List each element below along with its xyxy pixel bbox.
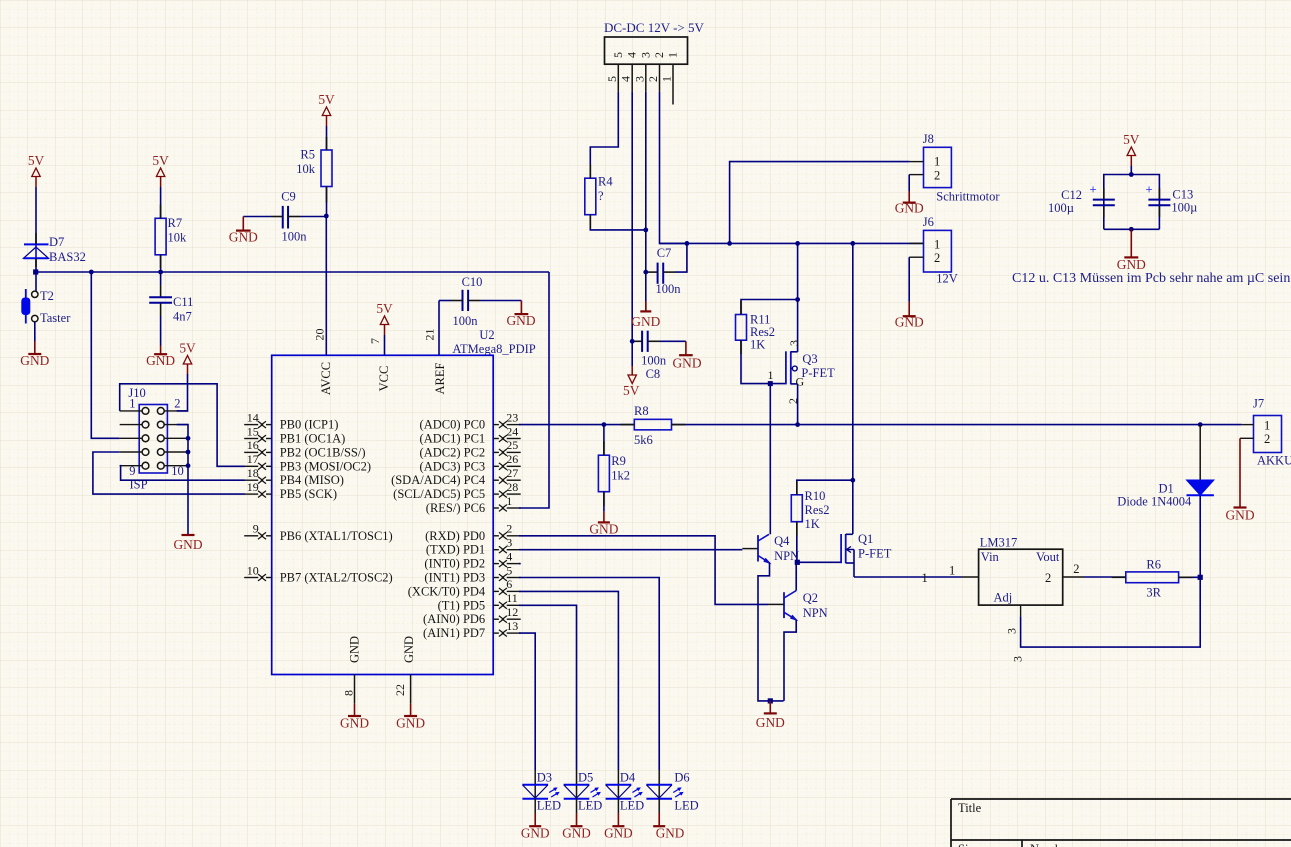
svg-text:C12 u. C13 Müssen im Pcb sehr: C12 u. C13 Müssen im Pcb sehr nahe am µC… (1012, 271, 1290, 286)
pin 15 PB1 (OC1A) (244, 424, 345, 445)
node junction R11/Q3 drain (795, 297, 800, 302)
svg-text:C11: C11 (173, 295, 193, 309)
svg-text:(ADC2) PC2: (ADC2) PC2 (420, 445, 486, 459)
node junction emitter GND (768, 698, 773, 703)
ground GND right of C10 (506, 301, 535, 329)
wire J10 pin1 to PB3 (120, 384, 245, 467)
wire R11 top to Q3 drain (741, 300, 798, 315)
wire PC6 reset net (519, 272, 549, 508)
wire R4 bottom to pin3 node (590, 215, 646, 230)
wire PD5 to LED D5 (519, 605, 577, 770)
svg-text:10k: 10k (296, 162, 316, 176)
node junction D7/T2 (33, 269, 38, 274)
node junction R4/pin3 (643, 228, 648, 233)
wire C12/C13 bottom rail (1104, 228, 1160, 230)
wire J10 reset branch (91, 272, 119, 438)
svg-text:Res2: Res2 (805, 503, 830, 517)
svg-text:Vout: Vout (1036, 550, 1060, 564)
wire Adj pin (1005, 606, 1021, 634)
pin 10 PB7 (XTAL2/TOSC2) (244, 563, 393, 584)
svg-text:11: 11 (506, 591, 518, 605)
pin 11 (T1) PD5 (438, 591, 521, 612)
power 5V symbol (R7) (152, 153, 169, 187)
svg-text:(ADC3) PC3: (ADC3) PC3 (420, 459, 486, 473)
power 5V symbol (D7 branch) (28, 153, 45, 187)
svg-text:GND: GND (562, 826, 591, 841)
resistor R4 ? (585, 175, 614, 215)
svg-text:GND: GND (604, 826, 633, 841)
svg-text:2: 2 (506, 522, 512, 536)
svg-text:AREF: AREF (433, 362, 447, 394)
push button T2 Taster (21, 272, 71, 325)
svg-text:9: 9 (253, 522, 259, 536)
svg-text:R10: R10 (805, 489, 826, 503)
wire J10 pin7 to PB5 (93, 452, 245, 494)
pin 17 PB3 (MOSI/OC2) (244, 452, 371, 473)
pin 5 (INT1) PD3 (424, 563, 520, 584)
svg-text:(ADC1) PC1: (ADC1) PC1 (420, 432, 486, 446)
ground GND under C11 (146, 346, 175, 369)
node junction C8/pin4 (630, 339, 635, 344)
LED D3 (521, 770, 561, 841)
svg-text:(SCL/ADC5) PC5: (SCL/ADC5) PC5 (393, 487, 485, 501)
wire Q2 collector to gate node (795, 562, 797, 590)
node junction R5/C9 (324, 214, 329, 219)
LED D4 (604, 770, 644, 841)
wire pin4 to 5V down arrow (631, 341, 633, 366)
svg-text:GND: GND (402, 636, 416, 663)
svg-text:GND: GND (396, 716, 425, 731)
svg-text:GND: GND (672, 356, 701, 371)
svg-text:8: 8 (342, 690, 356, 696)
wire J8 pin2 to GND (908, 175, 910, 191)
wire 5V to VCC pin 7 (384, 335, 386, 355)
wire R10 bottom to gate node (796, 522, 798, 563)
svg-text:Q3: Q3 (802, 352, 817, 366)
wire R8 to AKKU net (672, 424, 1242, 426)
pin 4 (INT0) PD2 (424, 549, 520, 570)
power 5V symbol (J10 pin2) (179, 341, 196, 375)
node junction reset/R7-C11 (158, 270, 163, 275)
resistor R10 Res2 1K (791, 489, 829, 531)
resistor R9 1k2 (598, 454, 630, 492)
svg-text:(INT0) PD2: (INT0) PD2 (424, 557, 485, 571)
svg-text:C10: C10 (462, 275, 483, 289)
pin 2 (RXD) PD0 (425, 522, 521, 543)
svg-text:(ADC0) PC0: (ADC0) PC0 (420, 418, 486, 432)
svg-text:GND: GND (1225, 508, 1254, 523)
pin 24 (ADC1) PC1 (420, 424, 521, 445)
transistor Q1 P-FET (841, 532, 892, 577)
svg-text:(SDA/ADC4) PC4: (SDA/ADC4) PC4 (391, 473, 486, 487)
wire J10 pin9 to PB4 (120, 466, 245, 481)
svg-text:16: 16 (247, 438, 259, 452)
pin number 20 (AVCC) (313, 329, 327, 341)
svg-text:5V: 5V (152, 153, 169, 168)
svg-text:4n7: 4n7 (173, 310, 192, 324)
wire DC-DC pin2 to 12V rail (660, 92, 687, 244)
wire J10 GND column (177, 425, 188, 535)
svg-text:LED: LED (674, 799, 698, 813)
svg-text:22: 22 (393, 684, 407, 696)
pin number 21 (AREF) (423, 329, 437, 341)
svg-text:GND: GND (895, 201, 924, 216)
wire Q1 source to LM317 (854, 576, 962, 578)
svg-text:5k6: 5k6 (634, 433, 653, 447)
wire DC-DC pin5 to R4 (590, 92, 618, 179)
svg-text:J6: J6 (923, 215, 934, 229)
svg-text:19: 19 (247, 480, 259, 494)
title block frame (951, 799, 1291, 847)
wire 5V to J10 pin 2 (177, 374, 188, 411)
svg-text:12V: 12V (936, 272, 958, 286)
svg-text:(RES/) PC6: (RES/) PC6 (426, 501, 485, 515)
svg-text:C12: C12 (1061, 188, 1082, 202)
wire DC-DC pin4 down (631, 92, 633, 342)
svg-text:(T1) PD5: (T1) PD5 (438, 598, 486, 612)
svg-text:2: 2 (934, 251, 940, 265)
svg-text:100n: 100n (282, 229, 308, 243)
svg-text:2: 2 (786, 398, 800, 404)
wire R9 to GND (603, 492, 605, 512)
svg-text:2: 2 (652, 52, 666, 58)
svg-text:GND: GND (895, 315, 924, 330)
svg-text:GND: GND (506, 313, 535, 328)
capacitor C11 4n7 (149, 272, 193, 346)
svg-text:6: 6 (506, 577, 512, 591)
pin 13 (AIN1) PD7 (423, 619, 521, 640)
node junction bottom rail (1129, 227, 1134, 232)
node junction R6/D1 line (1198, 575, 1203, 580)
wire J6 pin2 to GND (908, 257, 910, 302)
svg-text:1: 1 (922, 571, 928, 585)
svg-text:R4: R4 (598, 175, 613, 189)
svg-text:Schrittmotor: Schrittmotor (936, 190, 1000, 204)
pin label VCC (rotated) (377, 366, 391, 392)
svg-text:100µ: 100µ (1048, 201, 1074, 215)
pin number 7 (VCC) (368, 338, 382, 344)
wire Q1 drain from rail (852, 243, 854, 534)
svg-text:1: 1 (1264, 419, 1270, 433)
wire Vout to R6 (1084, 576, 1126, 578)
svg-text:J7: J7 (1253, 397, 1264, 411)
resistor R11 Res2 1K (736, 313, 776, 352)
svg-text:13: 13 (506, 619, 518, 633)
svg-text:Diode 1N4004: Diode 1N4004 (1117, 495, 1192, 509)
pin 8 GND lead (342, 675, 356, 704)
power 5V symbol (down arrow under C8) (623, 366, 640, 398)
svg-text:PB2 (OC1B/SS/): PB2 (OC1B/SS/) (280, 445, 366, 459)
power 5V symbol (C12/C13) (1123, 132, 1140, 166)
node junction D1 cathode (1198, 422, 1203, 427)
svg-text:LM317: LM317 (980, 535, 1018, 549)
svg-text:(AIN0) PD6: (AIN0) PD6 (423, 612, 485, 626)
svg-text:3: 3 (506, 536, 512, 550)
svg-text:14: 14 (247, 410, 259, 424)
ground GND under T2 (20, 341, 49, 368)
wire R11 bottom to Q3 gate (741, 340, 786, 383)
pin 23 (ADC0) PC0 (420, 410, 521, 431)
svg-text:17: 17 (247, 452, 259, 466)
wire R7 to node (160, 255, 162, 272)
svg-text:GND: GND (348, 636, 362, 663)
wire J7 pin2 to GND (1239, 438, 1241, 495)
svg-text:Number: Number (1030, 842, 1072, 847)
wire diode D7 stubs (35, 233, 37, 267)
wire PD4 to LED D4 (519, 591, 618, 770)
svg-text:5V: 5V (1123, 132, 1140, 147)
svg-text:PB4 (MISO): PB4 (MISO) (280, 473, 344, 487)
ground GND under pin 22 (396, 704, 425, 731)
svg-text:5: 5 (605, 76, 619, 82)
wire PD1 to Q4 base (519, 549, 742, 551)
capacitor C10 100n (439, 275, 521, 328)
svg-text:Title: Title (958, 801, 982, 815)
IC designator U2 ATMega8_PDIP (452, 328, 535, 356)
node junction J10 pin6 (186, 436, 191, 441)
pin 16 PB2 (OC1B/SS/) (244, 438, 365, 459)
pin 18 PB4 (MISO) (244, 466, 344, 487)
capacitor C7 100n (646, 243, 687, 296)
node junction J10 pin8 (186, 450, 191, 455)
svg-text:VCC: VCC (377, 366, 391, 392)
wire 5V to C12/C13 top rail (1130, 166, 1132, 175)
svg-text:28: 28 (506, 480, 518, 494)
ground GND under R9 (589, 512, 618, 537)
ground GND under J8 (895, 191, 924, 216)
svg-text:C7: C7 (657, 246, 672, 260)
svg-text:?: ? (598, 189, 604, 203)
svg-text:1: 1 (129, 397, 135, 411)
svg-text:10: 10 (247, 563, 259, 577)
svg-text:GND: GND (656, 826, 685, 841)
svg-text:D6: D6 (674, 771, 689, 785)
svg-text:PB7 (XTAL2/TOSC2): PB7 (XTAL2/TOSC2) (280, 571, 393, 585)
svg-text:5V: 5V (28, 153, 45, 168)
svg-text:R9: R9 (611, 454, 626, 468)
svg-text:ATMega8_PDIP: ATMega8_PDIP (452, 342, 535, 356)
svg-text:+: + (1145, 182, 1152, 197)
svg-text:PB0 (ICP1): PB0 (ICP1) (280, 418, 339, 432)
pin 22 GND lead (393, 675, 411, 704)
svg-text:100n: 100n (656, 282, 682, 296)
wire PD3 to LED D6 (519, 578, 659, 771)
svg-text:GND: GND (20, 353, 49, 368)
wire C12/C13 top rail (1104, 175, 1160, 230)
connector J10 ISP header (120, 386, 189, 492)
op-amp U2 ATMega8 IC body (272, 355, 494, 674)
pin 19 PB5 (SCK) (244, 480, 337, 501)
svg-text:1K: 1K (750, 338, 765, 352)
wire J8 pin1 to rail riser (730, 162, 910, 244)
wire R10 top tap (797, 480, 853, 495)
svg-text:GND: GND (631, 314, 660, 329)
connector J8 Schrittmotor (909, 132, 1000, 204)
svg-text:GND: GND (1117, 257, 1146, 272)
svg-text:LED: LED (620, 799, 644, 813)
svg-text:3: 3 (632, 76, 646, 82)
svg-text:2: 2 (1264, 432, 1270, 446)
ground GND under Q2/Q4 (756, 701, 785, 730)
node junction rail/J8 riser (727, 241, 732, 246)
svg-text:(RXD) PD0: (RXD) PD0 (425, 529, 485, 543)
svg-text:GND: GND (589, 522, 618, 537)
svg-text:1: 1 (768, 368, 774, 382)
svg-text:100n: 100n (641, 354, 667, 368)
svg-text:3: 3 (1005, 628, 1019, 634)
svg-text:DC-DC 12V -> 5V: DC-DC 12V -> 5V (604, 20, 705, 35)
wire C10 to AREF pin 21 (438, 301, 440, 356)
wire PC0 net from pin 23 (519, 424, 634, 426)
svg-text:Q4: Q4 (774, 534, 790, 548)
connector J7 AKKU (1240, 397, 1291, 468)
svg-text:D4: D4 (620, 771, 636, 785)
svg-text:GND: GND (173, 537, 202, 552)
transistor Q4 NPN (742, 534, 799, 563)
svg-text:100µ: 100µ (1171, 201, 1197, 215)
svg-text:9: 9 (129, 464, 135, 478)
ground GND right of C8 (672, 341, 701, 370)
node junction rail/Q3 drain (795, 241, 800, 246)
ground GND under J7 (1225, 495, 1254, 523)
svg-text:U2: U2 (479, 328, 494, 342)
svg-text:(TXD) PD1: (TXD) PD1 (426, 543, 485, 557)
svg-text:R8: R8 (634, 404, 649, 418)
comment text C12 u. C13 (1012, 271, 1290, 286)
pin label AREF (rotated) (433, 362, 447, 394)
svg-text:7: 7 (368, 338, 382, 344)
svg-text:R5: R5 (300, 148, 315, 162)
wire 12V rail (660, 242, 924, 244)
svg-text:PB3 (MOSI/OC2): PB3 (MOSI/OC2) (280, 459, 371, 473)
node junction rail/C7 (685, 241, 690, 246)
svg-text:100n: 100n (453, 314, 479, 328)
node junction Q3 source (795, 422, 800, 427)
ground GND under J6 (895, 302, 924, 330)
svg-text:25: 25 (506, 438, 518, 452)
node junction rail/Q1 drain (850, 241, 855, 246)
resistor R8 5k6 (634, 404, 672, 447)
pin 26 (ADC3) PC3 (420, 452, 521, 473)
svg-text:1K: 1K (805, 517, 820, 531)
svg-text:C8: C8 (646, 367, 661, 381)
svg-text:4: 4 (619, 76, 633, 82)
svg-text:Adj: Adj (994, 591, 1013, 605)
svg-text:R6: R6 (1146, 558, 1161, 572)
svg-text:NPN: NPN (774, 549, 799, 563)
pin 1 (RES/) PC6 (426, 494, 521, 515)
svg-text:GND: GND (521, 826, 550, 841)
svg-text:3: 3 (638, 52, 652, 58)
wire resistor stubs (black pin segments) (161, 137, 1193, 577)
svg-text:3: 3 (1011, 656, 1025, 662)
svg-text:5V: 5V (376, 301, 393, 316)
svg-text:Q1: Q1 (858, 532, 873, 546)
svg-text:1k2: 1k2 (611, 469, 630, 483)
wire 5V to R5 (326, 126, 328, 150)
svg-text:+: + (1089, 182, 1096, 197)
svg-text:4: 4 (625, 52, 639, 58)
wire 5V to D7 (35, 187, 37, 244)
ground GND under DC-DC pin3 (631, 301, 660, 329)
svg-text:20: 20 (313, 329, 327, 341)
pin label GND (rotated, pin 22) (402, 636, 416, 663)
svg-text:C13: C13 (1172, 188, 1193, 202)
wire PD0 to Q2 base (519, 536, 768, 605)
wire PD2 stub (519, 563, 521, 565)
resistor R6 3R (1126, 558, 1179, 600)
svg-text:R7: R7 (168, 216, 183, 230)
connector J6 12V (909, 215, 958, 286)
svg-text:PB5 (SCK): PB5 (SCK) (280, 487, 337, 501)
LED D6 (646, 770, 698, 841)
svg-text:2: 2 (646, 76, 660, 82)
svg-text:GND: GND (229, 230, 258, 245)
wire 5V to R7 (160, 187, 162, 218)
pin 25 (ADC2) PC2 (420, 438, 521, 459)
svg-text:J8: J8 (923, 132, 934, 146)
ground GND under pin 8 (340, 704, 369, 731)
svg-text:5V: 5V (318, 92, 335, 107)
svg-text:1: 1 (934, 238, 940, 252)
svg-text:GND: GND (756, 715, 785, 730)
svg-text:26: 26 (506, 452, 518, 466)
svg-text:1: 1 (934, 155, 940, 169)
svg-text:10k: 10k (168, 231, 188, 245)
power 5V symbol (VCC) (376, 301, 393, 335)
svg-text:1: 1 (660, 76, 674, 82)
voltage regulator LM317 (922, 535, 1085, 605)
svg-text:PB6 (XTAL1/TOSC1): PB6 (XTAL1/TOSC1) (280, 529, 393, 543)
ground GND under C12/C13 (1117, 229, 1146, 272)
svg-text:LED: LED (537, 799, 561, 813)
svg-text:Vin: Vin (981, 550, 1000, 564)
svg-text:1: 1 (666, 52, 680, 58)
svg-text:(INT1) PD3: (INT1) PD3 (424, 571, 485, 585)
capacitor C8 100n (632, 331, 686, 381)
wire R9 lead (603, 425, 605, 456)
svg-text:D3: D3 (537, 771, 552, 785)
svg-text:Size: Size (958, 842, 980, 847)
svg-text:2: 2 (1073, 562, 1079, 576)
svg-text:18: 18 (247, 466, 259, 480)
svg-text:1: 1 (506, 494, 512, 508)
svg-text:12: 12 (506, 605, 518, 619)
power 5V symbol (R5) (318, 92, 335, 126)
svg-text:5: 5 (611, 52, 625, 58)
svg-text:23: 23 (506, 410, 518, 424)
node junction Q1 gate node (795, 560, 800, 565)
wire main reset net horizontal (36, 271, 549, 273)
svg-text:27: 27 (506, 466, 518, 480)
svg-text:2: 2 (1045, 571, 1051, 585)
svg-text:GND: GND (146, 353, 175, 368)
wire Adj to D1 anode (1011, 495, 1201, 662)
wire Q4 emitter to GND (758, 563, 784, 701)
svg-text:1: 1 (949, 564, 955, 578)
pin 14 PB0 (ICP1) (244, 410, 338, 431)
svg-text:3: 3 (787, 340, 801, 346)
wire T2 to GND (34, 322, 36, 341)
svg-text:T2: T2 (40, 289, 54, 303)
wire gate node to Q1 gate (797, 561, 841, 563)
svg-text:15: 15 (247, 424, 259, 438)
svg-text:BAS32: BAS32 (49, 250, 86, 264)
transistor Q2 NPN (768, 591, 828, 620)
capacitor C13 100u (1145, 182, 1197, 218)
svg-text:LED: LED (578, 799, 602, 813)
wire D7 to node (35, 258, 37, 272)
